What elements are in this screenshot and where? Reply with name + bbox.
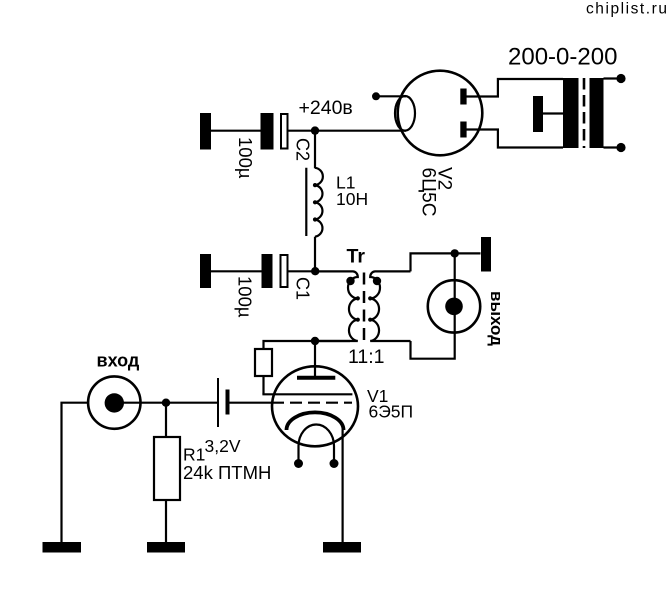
tube V1 anode (297, 376, 335, 380)
svg-text:6Э5П: 6Э5П (369, 402, 414, 422)
capacitor C1 negative plate (262, 254, 273, 288)
svg-text:+240в: +240в (299, 97, 353, 119)
capacitor C1 positive plate (281, 255, 288, 287)
transformer T1 HV secondary winding (563, 78, 579, 148)
terminal dot T1 bottom (616, 143, 625, 152)
tube V2 anode plate 1 (460, 89, 466, 105)
svg-text:C1: C1 (293, 277, 313, 300)
wire secondary bottom to output pin (411, 281, 455, 359)
inductor L1 coil knot 1 (313, 183, 317, 187)
wire anode 1 to winding top (466, 79, 563, 97)
transformer T1 primary winding (590, 78, 604, 148)
Tr secondary knot 1 (368, 296, 372, 300)
ground (input) (43, 542, 82, 553)
tube V1 envelope (272, 366, 358, 446)
svg-text:вход: вход (97, 351, 140, 371)
wire filament top lead (376, 95, 406, 97)
transformer T1 core (583, 78, 586, 148)
svg-text:выход: выход (487, 291, 506, 346)
svg-text:6Ц5С: 6Ц5С (418, 168, 439, 217)
tube V2 envelope (398, 71, 483, 156)
tube V1 heater (299, 425, 335, 461)
inductor L1 coil knot 2 (313, 200, 317, 204)
capacitor C2 negative plate (261, 113, 274, 150)
tube V1 control grid (272, 402, 352, 404)
tube V2 filament (395, 96, 415, 131)
wire T1 primary bottom lead (604, 146, 621, 148)
transformer Tr core (363, 273, 366, 342)
node grid network junction (162, 399, 170, 407)
wire cathode to ground (342, 430, 344, 543)
svg-text:10Н: 10Н (336, 189, 368, 209)
ground (C1) (200, 254, 211, 288)
wire L1 bottom (314, 237, 316, 272)
svg-text:chiplist.ru: chiplist.ru (586, 1, 669, 18)
Tr secondary phase dot (373, 277, 381, 285)
wire T1 primary top lead (604, 77, 621, 79)
connector output jack pin (445, 298, 463, 316)
node B+ junction (311, 126, 319, 134)
Tr primary knot 1 (356, 296, 360, 300)
tube V1 cathode (287, 412, 344, 430)
wire ground to C1 (211, 270, 262, 272)
wire center tap (543, 112, 563, 114)
svg-text:24k ПТМН: 24k ПТМН (183, 462, 271, 483)
node C1/L1/Tr junction (311, 267, 319, 275)
svg-text:100µ: 100µ (235, 137, 256, 179)
ground (V1 cathode) (323, 542, 361, 553)
wire V1 anode lead (314, 341, 316, 377)
wire B+ rail (289, 130, 407, 132)
node output ground junction (451, 249, 459, 257)
ground (C2) (200, 113, 211, 150)
connector input jack pin (105, 393, 124, 412)
wire L1 top (314, 131, 316, 169)
ground (output) (481, 237, 491, 272)
terminal dot filament (372, 92, 380, 100)
wire secondary top to ground junction (411, 253, 481, 271)
capacitor C2 positive plate (281, 114, 288, 149)
ground (R1) (147, 542, 185, 553)
terminal dot T1 top (616, 74, 625, 83)
Tr secondary knot 2 (368, 318, 372, 322)
svg-text:Tr: Tr (347, 246, 366, 268)
Tr primary knot 2 (356, 318, 360, 322)
tube V2 anode plate 2 (460, 122, 466, 138)
svg-text:C2: C2 (293, 138, 313, 161)
wire input pin to junction (115, 402, 166, 404)
resistor (screen stopper) (255, 349, 272, 376)
battery plate long (217, 378, 219, 427)
wire anode 2 to winding bottom (466, 130, 563, 148)
Tr primary phase dot (346, 277, 354, 285)
wire output jack shell lead (454, 253, 456, 280)
node V1 anode junction (311, 337, 319, 345)
svg-text:3,2V: 3,2V (205, 436, 241, 456)
wire input node to battery (166, 402, 217, 404)
wire R1 to ground (165, 500, 167, 542)
connector output jack (428, 280, 480, 332)
svg-text:11:1: 11:1 (348, 346, 385, 368)
wire screen lead (262, 376, 264, 394)
inductor L1 coil (315, 168, 323, 237)
wire ground to C2 (211, 130, 261, 132)
transformer Tr primary winding (315, 271, 358, 341)
wire input shell to ground (62, 403, 89, 542)
svg-text:200-0-200: 200-0-200 (508, 44, 617, 71)
inductor L1 core (305, 168, 307, 236)
inductor L1 coil knot 3 (313, 217, 317, 221)
heater pin dot 1 (294, 459, 303, 468)
svg-text:100µ: 100µ (235, 276, 256, 318)
resistor R1 (154, 437, 180, 500)
connector input jack (88, 376, 140, 428)
heater pin dot 2 (330, 459, 339, 468)
wire C1 to Tr node (289, 270, 317, 272)
transformer Tr secondary winding (370, 271, 410, 341)
battery plate short (226, 390, 230, 415)
wire V1 anode rail (264, 341, 351, 349)
wire junction to R1 (165, 403, 167, 437)
tube V1 screen grid (262, 393, 352, 395)
wire grid from battery (229, 402, 273, 404)
ground (HV center tap) (533, 96, 543, 132)
